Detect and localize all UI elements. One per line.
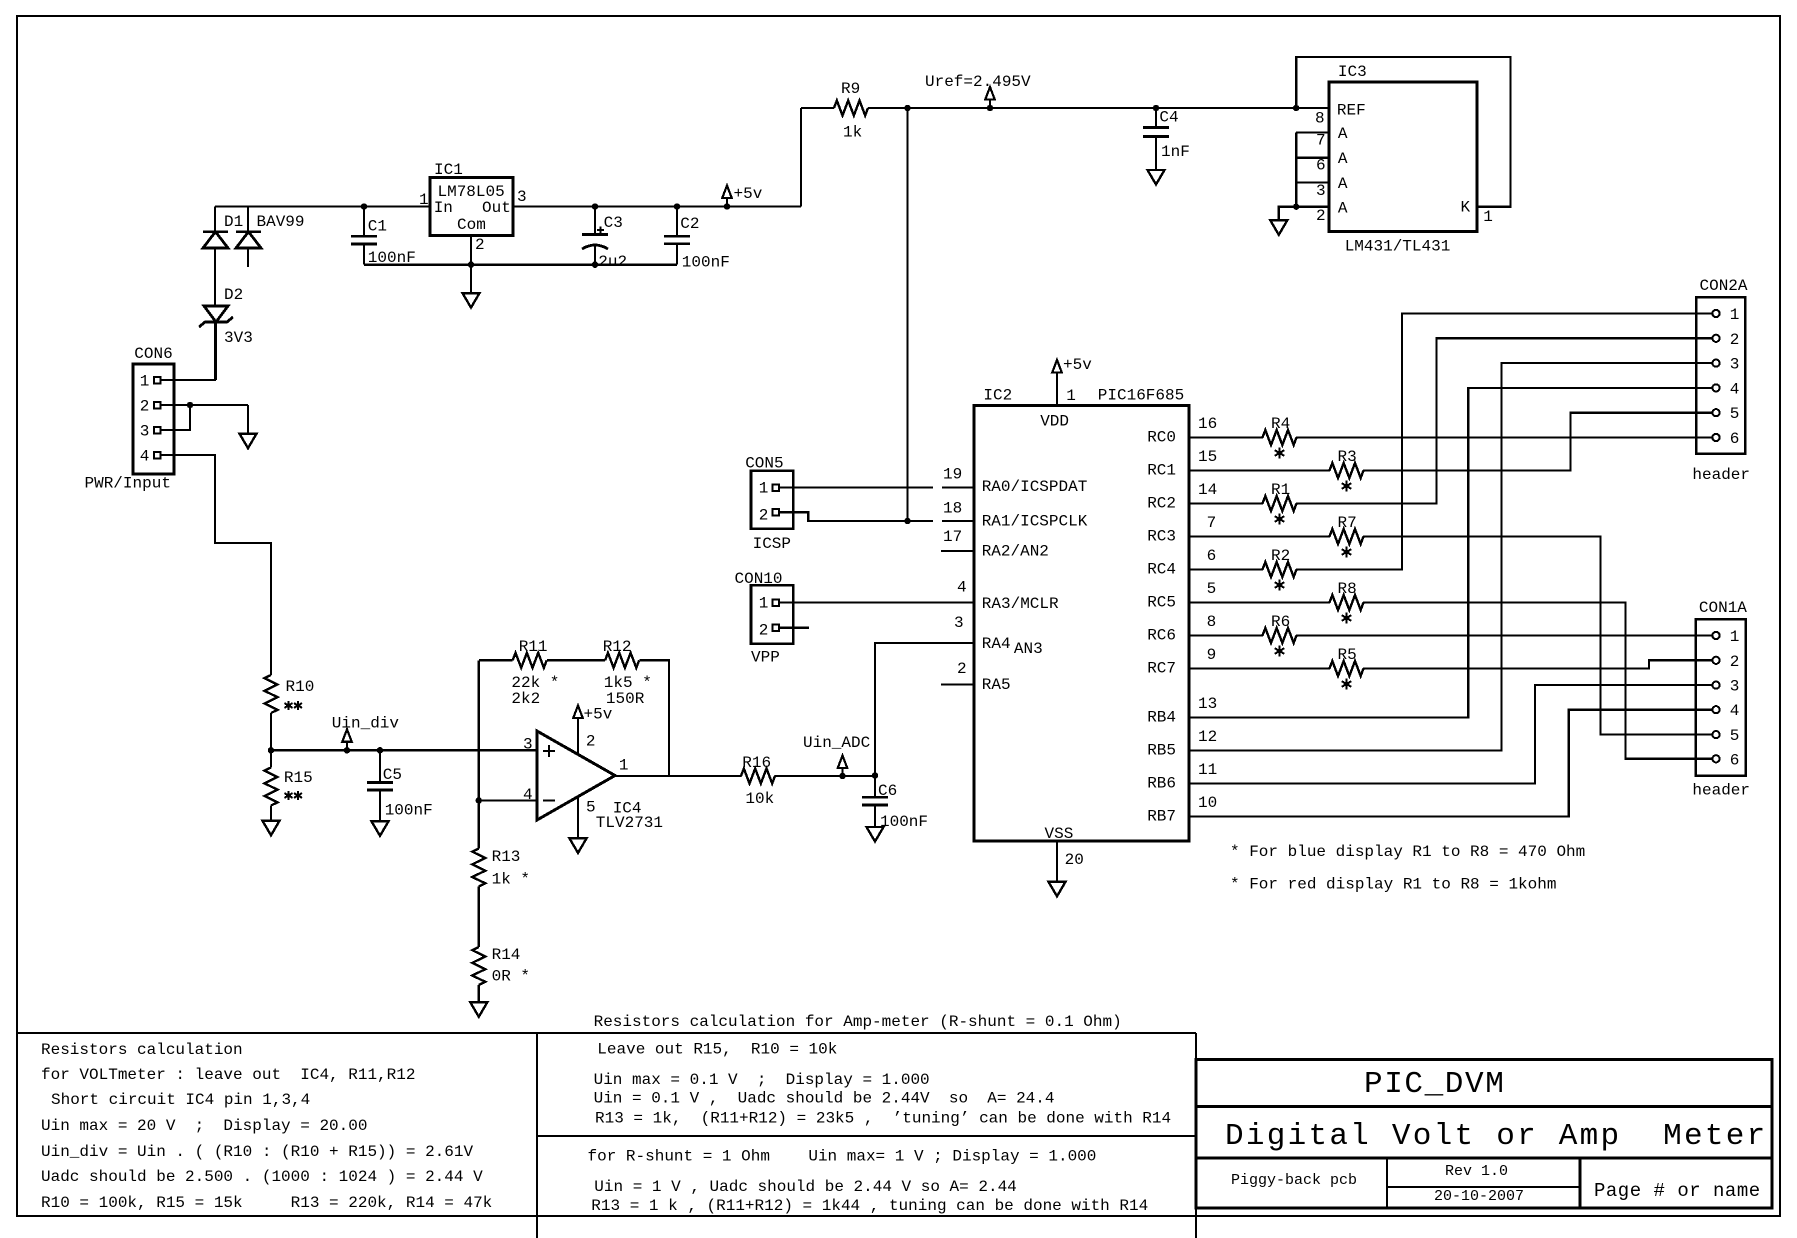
svg-text:RC3: RC3 bbox=[1147, 528, 1176, 546]
svg-text:20-10-2007: 20-10-2007 bbox=[1434, 1188, 1524, 1205]
wire inverting input bbox=[479, 799, 537, 801]
svg-text:R13 = 1 k , (R11+R12) = 1k44 ,: R13 = 1 k , (R11+R12) = 1k44 , tuning ca… bbox=[591, 1197, 1148, 1215]
svg-text:VSS: VSS bbox=[1045, 825, 1074, 843]
wire feedback top left bbox=[479, 659, 513, 661]
connector CON10 box bbox=[751, 585, 793, 643]
svg-text:R12: R12 bbox=[603, 638, 632, 656]
svg-text:* For blue display R1 to R8 =: * For blue display R1 to R8 = 470 Ohm bbox=[1230, 843, 1585, 861]
microcontroller IC2 box bbox=[974, 406, 1189, 841]
svg-text:5: 5 bbox=[586, 799, 596, 817]
svg-text:16: 16 bbox=[1198, 415, 1217, 433]
svg-text:RC0: RC0 bbox=[1147, 429, 1176, 447]
notes box divider vertical bbox=[536, 1033, 538, 1238]
wire RC3 stub bbox=[1189, 535, 1330, 537]
diode D1 first half bbox=[214, 207, 216, 232]
svg-text:2: 2 bbox=[759, 622, 769, 640]
CON1A pin 6 bbox=[1712, 755, 1719, 762]
svg-text:Uin = 0.1 V , Uadc should be: Uin = 0.1 V , Uadc should be 2.44V so A=… bbox=[594, 1090, 1055, 1108]
svg-text:1: 1 bbox=[759, 595, 769, 613]
wire R4 to CON2A pin6 bbox=[1296, 436, 1712, 438]
svg-text:RA3/MCLR: RA3/MCLR bbox=[982, 595, 1059, 613]
svg-text:1: 1 bbox=[419, 191, 429, 209]
svg-text:1: 1 bbox=[1066, 387, 1076, 405]
wire R3 to CON2A pin5 bbox=[1363, 413, 1712, 471]
svg-text:7: 7 bbox=[1316, 132, 1326, 150]
svg-text:4: 4 bbox=[140, 447, 150, 465]
wire IC3 gnd link bbox=[1279, 207, 1296, 221]
connector CON5 box bbox=[751, 471, 793, 529]
ground IC1 bbox=[463, 293, 480, 308]
wire ICSPCLK riser bbox=[906, 108, 908, 521]
svg-text:2: 2 bbox=[475, 236, 485, 254]
title block divider page cell left bbox=[1579, 1158, 1582, 1208]
wire opamp output bbox=[615, 775, 741, 777]
svg-text:6: 6 bbox=[1730, 430, 1740, 448]
svg-text:D1: D1 bbox=[224, 213, 243, 231]
svg-text:3V3: 3V3 bbox=[224, 329, 253, 347]
svg-text:CON2A: CON2A bbox=[1700, 277, 1748, 295]
svg-text:RB6: RB6 bbox=[1147, 775, 1176, 793]
wire R1 to CON2A pin2 bbox=[1296, 338, 1712, 503]
notes box middle divider bbox=[537, 1135, 1196, 1137]
wire junction to R15 bbox=[270, 750, 272, 767]
svg-text:RC5: RC5 bbox=[1147, 594, 1176, 612]
CON1A pin 3 bbox=[1712, 682, 1719, 689]
svg-text:Uin = 1 V , Uadc should be 2.4: Uin = 1 V , Uadc should be 2.44 V so A= … bbox=[594, 1178, 1016, 1196]
junction R9 output bbox=[905, 105, 910, 110]
svg-text:RA1/ICSPCLK: RA1/ICSPCLK bbox=[982, 513, 1088, 531]
wire RC4 stub bbox=[1189, 568, 1263, 570]
svg-text:5: 5 bbox=[1730, 405, 1740, 423]
junction CON6 pin2/3 bbox=[187, 402, 192, 407]
regulator IC1 box bbox=[430, 177, 513, 235]
wire RC7 stub bbox=[1189, 667, 1330, 669]
svg-text:RB4: RB4 bbox=[1147, 709, 1176, 727]
svg-text:1nF: 1nF bbox=[1161, 143, 1190, 161]
CON5 pin 1 bbox=[772, 484, 779, 491]
svg-text:3: 3 bbox=[1730, 356, 1740, 374]
wire R15 to gnd bbox=[270, 806, 272, 821]
svg-text:Piggy-back pcb: Piggy-back pcb bbox=[1231, 1172, 1357, 1189]
svg-text:IC1: IC1 bbox=[434, 161, 463, 179]
svg-text:Leave out R15, R10 = 10k: Leave out R15, R10 = 10k bbox=[597, 1041, 837, 1059]
svg-text:14: 14 bbox=[1198, 481, 1217, 499]
ground C4 bbox=[1148, 170, 1165, 185]
svg-text:Page # or name: Page # or name bbox=[1594, 1180, 1761, 1202]
svg-text:D2: D2 bbox=[224, 286, 243, 304]
svg-text:C5: C5 bbox=[383, 766, 402, 784]
diode D1 second half bbox=[247, 207, 249, 232]
capacitor C6 bbox=[872, 773, 877, 778]
resistor R2 bbox=[1263, 562, 1297, 577]
svg-text:IC3: IC3 bbox=[1338, 63, 1367, 81]
wire CON6 pin4 to divider bbox=[161, 455, 272, 675]
IC3 anode stub 2 bbox=[1296, 206, 1329, 208]
svg-text:C4: C4 bbox=[1159, 109, 1178, 127]
svg-text:RA5: RA5 bbox=[982, 676, 1011, 694]
CON2A pin 5 bbox=[1712, 409, 1719, 416]
svg-text:5: 5 bbox=[1730, 727, 1740, 745]
ground IC4 bbox=[570, 838, 587, 853]
svg-text:1: 1 bbox=[1730, 628, 1740, 646]
svg-text:+5v: +5v bbox=[734, 185, 763, 203]
IC2 RA2 stub bbox=[941, 550, 974, 552]
svg-text:IC2: IC2 bbox=[983, 386, 1012, 404]
svg-text:Uin_ADC: Uin_ADC bbox=[803, 734, 870, 752]
svg-text:20: 20 bbox=[1065, 851, 1084, 869]
label R4 star bbox=[1279, 447, 1281, 458]
wire feedback mid bbox=[547, 659, 605, 661]
resistor R11 bbox=[513, 653, 547, 668]
svg-text:2: 2 bbox=[759, 507, 769, 525]
wire feedback right bbox=[640, 660, 669, 776]
CON2A pin 4 bbox=[1712, 384, 1719, 391]
svg-text:100nF: 100nF bbox=[880, 813, 928, 831]
wire R2 to CON2A pin1 bbox=[1296, 314, 1712, 570]
svg-text:CON6: CON6 bbox=[134, 345, 172, 363]
wire RB6 to CON1A pin3 bbox=[1189, 685, 1712, 783]
svg-text:Uin_div = Uin . ( (R10 : (R10: Uin_div = Uin . ( (R10 : (R10 + R15)) = … bbox=[41, 1143, 473, 1161]
title block outline bbox=[1196, 1060, 1772, 1209]
wire feedback left riser bbox=[478, 660, 480, 800]
svg-text:Resistors calculation: Resistors calculation bbox=[41, 1041, 243, 1059]
ground VSS bbox=[1049, 882, 1066, 897]
svg-text:RC1: RC1 bbox=[1147, 462, 1176, 480]
svg-text:REF: REF bbox=[1337, 102, 1366, 120]
CON2A pin 1 bbox=[1712, 310, 1719, 317]
svg-text:3: 3 bbox=[1316, 182, 1326, 200]
svg-text:Resistors calculation for Amp-: Resistors calculation for Amp-meter (R-s… bbox=[594, 1013, 1122, 1031]
svg-text:10: 10 bbox=[1198, 794, 1217, 812]
resistor R13 bbox=[472, 849, 485, 887]
svg-text:RA0/ICSPDAT: RA0/ICSPDAT bbox=[982, 478, 1088, 496]
svg-text:AN3: AN3 bbox=[1014, 640, 1043, 658]
svg-text:3: 3 bbox=[523, 736, 533, 754]
op-amp plus sign bbox=[543, 745, 555, 757]
capacitor C1 bbox=[361, 204, 366, 209]
connector CON1A box bbox=[1696, 619, 1746, 775]
resistor R5 bbox=[1330, 661, 1364, 676]
svg-text:1k *: 1k * bbox=[492, 871, 530, 889]
wire RC6 stub bbox=[1189, 634, 1263, 636]
svg-text:Com: Com bbox=[457, 216, 486, 234]
net arrow Uin_ADC bbox=[841, 768, 843, 776]
svg-text:Digital Volt or Amp Meter: Digital Volt or Amp Meter bbox=[1225, 1119, 1767, 1154]
svg-text:5: 5 bbox=[1207, 580, 1217, 598]
wire RC1 stub bbox=[1189, 469, 1330, 471]
wire RB4 to CON2A pin4 bbox=[1189, 388, 1712, 718]
svg-text:17: 17 bbox=[943, 528, 962, 546]
svg-text:VPP: VPP bbox=[751, 649, 780, 667]
CON2A pin 3 bbox=[1712, 360, 1719, 367]
wire R14 to gnd bbox=[478, 985, 480, 1002]
svg-text:8: 8 bbox=[1207, 613, 1217, 631]
label R6 star bbox=[1279, 645, 1281, 656]
wire CON6 pin1 to D2 bbox=[161, 322, 216, 380]
svg-text:CON10: CON10 bbox=[735, 570, 783, 588]
svg-text:R3: R3 bbox=[1338, 448, 1357, 466]
label R1 star bbox=[1279, 513, 1281, 524]
wire RB7 to CON1A pin4 bbox=[1189, 710, 1712, 817]
junction divider bbox=[268, 748, 273, 753]
svg-text:R7: R7 bbox=[1338, 514, 1357, 532]
svg-text:12: 12 bbox=[1198, 728, 1217, 746]
svg-text:2k2: 2k2 bbox=[511, 690, 540, 708]
svg-text:RB5: RB5 bbox=[1147, 742, 1176, 760]
svg-text:R16: R16 bbox=[742, 754, 771, 772]
svg-text:4: 4 bbox=[1730, 380, 1740, 398]
svg-text:K: K bbox=[1461, 199, 1471, 217]
svg-text:2: 2 bbox=[1316, 207, 1326, 225]
svg-text:R9: R9 bbox=[841, 80, 860, 98]
svg-text:4: 4 bbox=[1730, 702, 1740, 720]
CON6 pin 3 bbox=[154, 427, 161, 434]
svg-text:10k: 10k bbox=[745, 790, 774, 808]
svg-text:RC6: RC6 bbox=[1147, 627, 1176, 645]
title block divider rev/date bbox=[1387, 1186, 1580, 1188]
wire IC1 out rail bbox=[513, 205, 801, 207]
svg-text:19: 19 bbox=[943, 466, 962, 484]
ground C6 bbox=[867, 827, 884, 842]
capacitor C4 bbox=[1153, 105, 1158, 110]
svg-text:3: 3 bbox=[954, 614, 964, 632]
ground CON6 bbox=[240, 434, 257, 449]
svg-text:2u2: 2u2 bbox=[598, 253, 627, 271]
svg-text:+5v: +5v bbox=[1063, 356, 1092, 374]
svg-text:R4: R4 bbox=[1271, 415, 1290, 433]
svg-text:1: 1 bbox=[759, 480, 769, 498]
svg-text:A: A bbox=[1338, 125, 1348, 143]
ground IC3 bbox=[1270, 220, 1287, 235]
CON10 pin 2 bbox=[772, 624, 779, 631]
svg-text:A: A bbox=[1338, 175, 1348, 193]
resistor R8 bbox=[1330, 595, 1364, 610]
label R5 star bbox=[1346, 678, 1348, 689]
svg-text:R8: R8 bbox=[1338, 580, 1357, 598]
wire IC3 cathode loop bbox=[1296, 57, 1510, 207]
svg-text:3: 3 bbox=[140, 422, 150, 440]
resistor R9 bbox=[834, 101, 868, 116]
label R2 star bbox=[1279, 579, 1281, 590]
wire CON6 pin3 link bbox=[161, 405, 191, 430]
svg-text:R13 = 1k, (R11+R12) = 23k5 ,: R13 = 1k, (R11+R12) = 23k5 , ’tuning’ ca… bbox=[595, 1110, 1171, 1128]
svg-text:RA2/AN2: RA2/AN2 bbox=[982, 543, 1049, 561]
CON10 pin 1 bbox=[772, 599, 779, 606]
resistor R7 bbox=[1330, 529, 1364, 544]
wire CON5 pin1 to RA0 bbox=[779, 486, 933, 488]
CON5 pin 2 bbox=[772, 509, 779, 516]
wire R8 to CON1A pin6 bbox=[1363, 603, 1712, 759]
CON1A pin 1 bbox=[1712, 632, 1719, 639]
svg-text:Out: Out bbox=[482, 199, 511, 217]
svg-text:2: 2 bbox=[1730, 653, 1740, 671]
svg-text:6: 6 bbox=[1730, 751, 1740, 769]
svg-text:8: 8 bbox=[1315, 109, 1325, 127]
wire CON5 pin2 to RA1 bbox=[779, 512, 933, 521]
svg-text:Uin max = 20 V ; Display = 2: Uin max = 20 V ; Display = 20.00 bbox=[41, 1117, 367, 1135]
wire RC5 stub bbox=[1189, 601, 1330, 603]
wire Uin_ADC rail bbox=[775, 775, 875, 777]
svg-text:13: 13 bbox=[1198, 695, 1217, 713]
svg-text:9: 9 bbox=[1207, 646, 1217, 664]
wire IC1 gnd drop bbox=[470, 265, 472, 293]
svg-text:RC7: RC7 bbox=[1147, 660, 1176, 678]
junction inverting input bbox=[476, 798, 481, 803]
label R10 stars bbox=[288, 701, 290, 710]
svg-text:RC4: RC4 bbox=[1147, 561, 1176, 579]
junction IC3 ref bbox=[1294, 105, 1299, 110]
svg-text:R10: R10 bbox=[286, 678, 315, 696]
shunt regulator IC3 box bbox=[1329, 82, 1477, 231]
wire R13 top bbox=[478, 801, 480, 849]
svg-text:Short circuit IC4 pin 1,3,4: Short circuit IC4 pin 1,3,4 bbox=[51, 1091, 310, 1109]
IC1 Com stub bbox=[470, 236, 472, 265]
junction Com bus bbox=[468, 262, 473, 267]
IC4 V- stub bbox=[577, 797, 579, 839]
svg-text:VDD: VDD bbox=[1040, 412, 1069, 430]
wire R7 to CON1A pin5 bbox=[1363, 537, 1712, 735]
svg-text:C6: C6 bbox=[878, 782, 897, 800]
resistor R6 bbox=[1263, 628, 1297, 643]
svg-text:2: 2 bbox=[586, 733, 596, 751]
svg-text:A: A bbox=[1338, 200, 1348, 218]
wire Uin_div rail bbox=[271, 749, 537, 751]
svg-text:R2: R2 bbox=[1271, 547, 1290, 565]
label R15 stars bbox=[288, 791, 290, 800]
IC2 RA5 stub bbox=[941, 683, 974, 685]
svg-text:RA4: RA4 bbox=[982, 635, 1011, 653]
svg-text:0R *: 0R * bbox=[492, 968, 530, 986]
wire R9 left stub bbox=[801, 107, 834, 109]
svg-text:for VOLTmeter : leave out IC4: for VOLTmeter : leave out IC4, R11,R12 bbox=[41, 1066, 415, 1084]
svg-text:C2: C2 bbox=[680, 215, 699, 233]
junction IC3 anode bbox=[1294, 204, 1299, 209]
resistor R16 bbox=[741, 769, 775, 784]
svg-text:1: 1 bbox=[619, 757, 629, 775]
svg-text:11: 11 bbox=[1198, 761, 1217, 779]
svg-text:7: 7 bbox=[1207, 514, 1217, 532]
wire R5 to CON1A pin2 bbox=[1363, 660, 1712, 668]
notes box left top edge bbox=[17, 1032, 537, 1034]
svg-text:PIC16F685: PIC16F685 bbox=[1098, 386, 1184, 404]
svg-text:for R-shunt = 1 Ohm Uin max: for R-shunt = 1 Ohm Uin max= 1 V ; Displ… bbox=[588, 1148, 1097, 1166]
resistor R4 bbox=[1263, 430, 1297, 445]
svg-text:R5: R5 bbox=[1338, 646, 1357, 664]
title block divider rev cell left bbox=[1386, 1158, 1388, 1208]
IC2 RA1 stub bbox=[942, 520, 974, 522]
svg-text:100nF: 100nF bbox=[682, 254, 730, 272]
svg-text:PWR/Input: PWR/Input bbox=[85, 475, 171, 493]
notes box middle right vertical bbox=[1195, 1033, 1197, 1238]
svg-text:Uin max = 0.1 V ; Display =: Uin max = 0.1 V ; Display = 1.000 bbox=[594, 1071, 930, 1089]
svg-text:+5v: +5v bbox=[584, 706, 613, 724]
capacitor C2 bbox=[674, 204, 679, 209]
svg-text:In: In bbox=[434, 199, 453, 217]
svg-text:R1: R1 bbox=[1271, 481, 1290, 499]
svg-text:3: 3 bbox=[517, 188, 527, 206]
resistor R10 bbox=[265, 675, 278, 713]
svg-text:CON5: CON5 bbox=[745, 454, 783, 472]
svg-text:2: 2 bbox=[957, 660, 967, 678]
ground R14 bbox=[470, 1002, 487, 1017]
wire +5v riser bbox=[800, 108, 802, 207]
svg-text:6: 6 bbox=[1316, 157, 1326, 175]
title block divider row2 bbox=[1196, 1157, 1772, 1160]
svg-text:1: 1 bbox=[140, 372, 150, 390]
connector CON2A box bbox=[1696, 297, 1745, 453]
svg-text:PIC_DVM: PIC_DVM bbox=[1364, 1067, 1505, 1102]
wire CON10 pin1 to RA3 bbox=[779, 601, 974, 603]
CON1A pin 4 bbox=[1712, 706, 1719, 713]
CON2A pin 6 bbox=[1712, 434, 1719, 441]
wire CON10 pin2 stub bbox=[779, 627, 809, 629]
svg-text:3: 3 bbox=[1730, 678, 1740, 696]
net arrow Uin_div bbox=[346, 742, 348, 751]
svg-text:Rev 1.0: Rev 1.0 bbox=[1445, 1163, 1508, 1180]
resistor R3 bbox=[1330, 463, 1364, 478]
resistor R14 bbox=[472, 947, 485, 985]
CON2A pin 2 bbox=[1712, 335, 1719, 342]
IC2 VSS stub bbox=[1056, 841, 1058, 882]
svg-text:Uref=2.495V: Uref=2.495V bbox=[925, 73, 1031, 91]
svg-text:CON1A: CON1A bbox=[1699, 599, 1747, 617]
svg-text:R10 = 100k, R15 = 15k R13: R10 = 100k, R15 = 15k R13 = 220k, R14 = … bbox=[41, 1194, 492, 1212]
resistor R15 bbox=[265, 768, 278, 806]
IC3 anode stub 3 bbox=[1296, 181, 1329, 183]
svg-text:4: 4 bbox=[957, 579, 967, 597]
svg-text:R14: R14 bbox=[492, 946, 521, 964]
IC3 anode stub 6 bbox=[1296, 157, 1329, 159]
wire R6 to CON1A pin1 bbox=[1296, 634, 1712, 636]
svg-text:header: header bbox=[1692, 782, 1750, 800]
svg-text:1k: 1k bbox=[843, 124, 862, 142]
power arrow Uref bbox=[989, 100, 991, 109]
label R8 star bbox=[1346, 612, 1348, 623]
capacitor C5 bbox=[377, 748, 382, 753]
CON1A pin 2 bbox=[1712, 657, 1719, 664]
capacitor C3 polarized bbox=[592, 204, 597, 209]
svg-text:TLV2731: TLV2731 bbox=[596, 814, 663, 832]
IC4 V+ stub bbox=[577, 718, 579, 755]
notes box middle top edge bbox=[537, 1032, 1196, 1034]
ground R15 bbox=[263, 821, 280, 836]
svg-text:R15: R15 bbox=[284, 769, 313, 787]
wire R10 to junction bbox=[270, 713, 272, 750]
wire Uref rail bbox=[868, 107, 1329, 109]
title block divider row1 bbox=[1196, 1105, 1772, 1108]
svg-text:C1: C1 bbox=[368, 218, 387, 236]
wire IC3 anode bus bbox=[1295, 133, 1297, 207]
junction C3 bus bbox=[592, 262, 597, 267]
svg-text:LM431/TL431: LM431/TL431 bbox=[1345, 237, 1451, 255]
svg-text:2: 2 bbox=[140, 397, 150, 415]
IC3 anode stub 7 bbox=[1296, 132, 1329, 134]
svg-text:* For red display R1 to R8 = 1: * For red display R1 to R8 = 1kohm bbox=[1230, 876, 1556, 894]
svg-text:R6: R6 bbox=[1271, 613, 1290, 631]
svg-text:2: 2 bbox=[1730, 331, 1740, 349]
wire RB5 to CON2A pin3 bbox=[1189, 363, 1712, 750]
svg-text:1: 1 bbox=[1730, 306, 1740, 324]
wire IC1 ground bus bbox=[364, 264, 677, 266]
zener D2 bbox=[204, 306, 228, 322]
svg-text:6: 6 bbox=[1207, 547, 1217, 565]
junction RA1 Uref bbox=[905, 518, 910, 523]
connector CON6 box bbox=[133, 364, 174, 474]
label R3 star bbox=[1346, 480, 1348, 491]
CON6 pin 1 bbox=[154, 377, 161, 384]
svg-text:4: 4 bbox=[523, 786, 533, 804]
svg-text:ICSP: ICSP bbox=[753, 535, 791, 553]
